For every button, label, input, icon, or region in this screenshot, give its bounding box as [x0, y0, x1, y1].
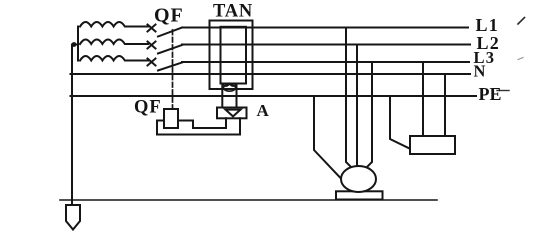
- wire QF2 left terminal: [157, 121, 164, 135]
- SPD TAN bottom ring: [224, 84, 236, 91]
- SPD TAN inner box: [221, 27, 247, 84]
- breaker QF pole 1 contact cross: [148, 25, 156, 32]
- svg-text:TAN: TAN: [213, 2, 253, 22]
- svg-text:PE: PE: [479, 84, 502, 104]
- wire star point stub: [72, 44, 78, 46]
- wire feeder L1 to motor: [346, 28, 353, 169]
- wire SPD lead right: [236, 84, 238, 108]
- bus L3: [182, 61, 469, 63]
- wire QF2 right terminal: [178, 118, 226, 128]
- SPD TAN bottom hump right: [230, 84, 237, 87]
- breaker QF2 box: [164, 109, 178, 128]
- wire earth down-lead: [71, 45, 73, 206]
- wire feeder PE to appliance: [390, 96, 410, 149]
- ground electrode: [66, 205, 80, 230]
- arrester box A: [217, 108, 247, 119]
- breaker QF pole 2 contact cross: [148, 42, 156, 49]
- SPD TAN outer box: [210, 21, 253, 90]
- bus PE: [71, 95, 477, 97]
- wire feeder L3 to appliance: [422, 62, 424, 136]
- svg-text:L1: L1: [476, 15, 499, 35]
- svg-text:QF: QF: [134, 98, 162, 118]
- wire feeder N to appliance: [444, 74, 446, 136]
- transformer winding connector vertical: [77, 27, 79, 61]
- wire feeder L2 to motor: [356, 45, 358, 167]
- bus N: [71, 73, 471, 75]
- svg-text:A: A: [257, 101, 270, 120]
- breaker QF pole 1 blade: [158, 28, 182, 37]
- SPD TAN bottom hump left: [222, 84, 229, 87]
- wire SPD lead left: [221, 84, 223, 108]
- breaker QF pole 2 blade: [158, 45, 182, 54]
- svg-text:QF: QF: [154, 5, 184, 27]
- motor body: [341, 166, 376, 192]
- winding W3 (bottom coil): [80, 56, 148, 61]
- breaker QF pole 3 contact cross: [148, 59, 156, 66]
- breaker QF pole 3 blade: [158, 63, 182, 71]
- svg-text:N: N: [474, 62, 486, 81]
- winding W2 (middle coil): [80, 40, 148, 45]
- appliance box: [410, 136, 455, 154]
- motor pedestal: [336, 191, 383, 199]
- arrester triangle: [226, 110, 241, 117]
- breaker QF linkage dashed line: [172, 30, 174, 108]
- wire feeder L3 to motor: [366, 62, 373, 169]
- wire loop bottom: [157, 118, 240, 134]
- winding W1 (top coil): [80, 22, 148, 27]
- junction dot star point: [72, 42, 77, 47]
- wire feeder PE to motor frame: [314, 96, 340, 178]
- bus L2: [182, 44, 470, 46]
- PE label smudge stroke: [497, 90, 509, 92]
- stray tick mark top right: [518, 18, 525, 25]
- ground line: [60, 199, 437, 201]
- stray faint mark right: [518, 58, 523, 60]
- bus L1: [182, 27, 468, 29]
